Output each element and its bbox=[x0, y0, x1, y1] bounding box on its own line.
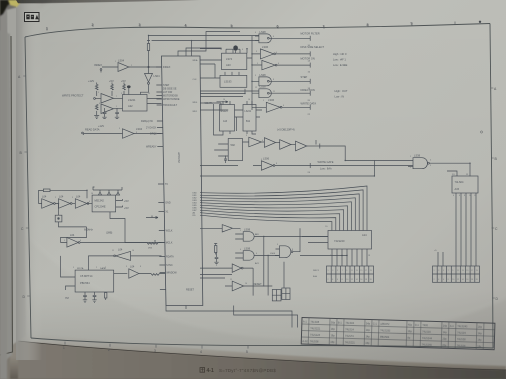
svg-text:LS06: LS06 bbox=[263, 157, 270, 161]
svg-text:A23: A23 bbox=[226, 63, 231, 67]
svg-text:A13: A13 bbox=[223, 120, 228, 123]
svg-text:6: 6 bbox=[283, 105, 284, 107]
svg-text:15: 15 bbox=[360, 270, 362, 272]
svg-text:LS08: LS08 bbox=[244, 228, 251, 232]
wire top long bbox=[149, 32, 241, 41]
crystal X1 bbox=[55, 204, 93, 232]
wire U4 to window buffer bbox=[114, 273, 128, 275]
capacitor C4 bbox=[93, 292, 97, 300]
svg-text:LS38: LS38 bbox=[414, 154, 421, 158]
svg-text:D-1: D-1 bbox=[415, 324, 420, 327]
svg-text:11: 11 bbox=[112, 250, 114, 252]
buffer A1 LS04 bbox=[118, 59, 162, 72]
gate B1 LS38 nand bbox=[255, 30, 310, 43]
ground G4 bbox=[83, 300, 87, 303]
wires U1 top to gates bbox=[149, 32, 259, 57]
svg-text:6: 6 bbox=[443, 279, 444, 281]
right border dot mark bbox=[480, 131, 482, 133]
jumper JP1 bbox=[272, 290, 281, 301]
svg-text:14p: 14p bbox=[366, 322, 371, 325]
power labels +12V +5V bbox=[88, 79, 126, 83]
svg-text:8: 8 bbox=[276, 163, 277, 165]
svg-text:DMA(x)=W: DMA(x)=W bbox=[141, 120, 153, 123]
inverter A6 LS04 bbox=[39, 195, 59, 209]
svg-text:+12V: +12V bbox=[98, 124, 104, 128]
svg-text:19: 19 bbox=[476, 270, 478, 272]
svg-text:9: 9 bbox=[452, 270, 453, 272]
svg-text:S=7Dyt°-7"4X7$N@PDB$: S=7Dyt°-7"4X7$N@PDB$ bbox=[219, 368, 276, 373]
svg-text:1: 1 bbox=[46, 27, 48, 31]
svg-text:LS38: LS38 bbox=[260, 73, 267, 77]
svg-text:4: 4 bbox=[453, 195, 454, 197]
svg-text:16: 16 bbox=[360, 279, 362, 281]
gate E3 LS08 A21 bbox=[235, 247, 279, 265]
capacitor C5 electrolytic bbox=[233, 45, 238, 53]
ground G2 bbox=[102, 117, 106, 118]
svg-text:16p: 16p bbox=[331, 321, 336, 324]
svg-text:17: 17 bbox=[365, 270, 367, 272]
svg-text:1: 1 bbox=[63, 346, 65, 350]
svg-text:4: 4 bbox=[255, 32, 256, 34]
gate E2 LS08 A11 bbox=[235, 228, 328, 242]
terminal T2 bbox=[308, 51, 311, 62]
counter U6 LS193 bbox=[220, 72, 247, 87]
frame tick numbers top bbox=[46, 22, 413, 31]
svg-text:GND: GND bbox=[165, 202, 171, 205]
svg-text:10: 10 bbox=[132, 250, 134, 252]
svg-text:2: 2 bbox=[410, 167, 411, 169]
buffer E1 bbox=[200, 225, 241, 232]
svg-text:74LS08: 74LS08 bbox=[310, 321, 319, 324]
svg-text:16: 16 bbox=[117, 193, 119, 195]
resistor R3 bbox=[111, 83, 114, 97]
svg-text:WINDOW: WINDOW bbox=[166, 272, 177, 275]
svg-text:5: 5 bbox=[246, 350, 248, 354]
resistor R7 below U4 bbox=[105, 292, 107, 300]
svg-text:INDEX: INDEX bbox=[94, 63, 102, 67]
svg-text:C5 MPT14: C5 MPT14 bbox=[80, 274, 93, 278]
capacitor C1 bbox=[103, 108, 107, 117]
svg-text:8: 8 bbox=[448, 279, 449, 281]
svg-text:3: 3 bbox=[332, 270, 333, 272]
svg-text:16p: 16p bbox=[408, 330, 413, 333]
svg-text:2: 2 bbox=[434, 279, 435, 281]
inverter A8 LS04 bbox=[75, 195, 92, 209]
buffer A11 bbox=[129, 265, 166, 279]
svg-text:9: 9 bbox=[119, 128, 120, 130]
svg-text:LS04: LS04 bbox=[136, 127, 143, 131]
svg-text:LS04: LS04 bbox=[154, 74, 161, 78]
svg-text:5: 5 bbox=[257, 63, 258, 65]
svg-text:L04: L04 bbox=[76, 195, 81, 199]
svg-text:74LS14: 74LS14 bbox=[345, 328, 354, 331]
U1 left pin stubs bbox=[156, 67, 166, 290]
svg-text:3: 3 bbox=[246, 135, 247, 137]
buffer C4a bbox=[296, 141, 320, 151]
wire MCLK to U1 bbox=[110, 212, 162, 243]
capacitor C6 bbox=[215, 252, 219, 262]
VFO U4 bbox=[75, 267, 114, 292]
wire loop left of U4 bbox=[61, 256, 76, 290]
svg-text:13: 13 bbox=[462, 270, 464, 272]
svg-text:14p: 14p bbox=[366, 329, 371, 332]
svg-text:74LS240: 74LS240 bbox=[334, 239, 345, 243]
svg-text:6: 6 bbox=[273, 36, 274, 38]
buffer C3a bbox=[280, 140, 296, 150]
svg-text:STEP: STEP bbox=[301, 75, 308, 79]
svg-text:74LS123: 74LS123 bbox=[310, 334, 321, 337]
pin number marks bbox=[38, 32, 476, 285]
inverter A7 LS04 bbox=[59, 195, 76, 209]
svg-text:7406: 7406 bbox=[422, 324, 428, 327]
svg-text:+5V: +5V bbox=[121, 79, 126, 83]
svg-text:LS04: LS04 bbox=[118, 59, 125, 63]
svg-text:74LS08: 74LS08 bbox=[310, 340, 319, 343]
svg-text:5: 5 bbox=[231, 24, 233, 28]
frame tick marks right bbox=[491, 88, 495, 298]
svg-text:6: 6 bbox=[278, 63, 279, 65]
svg-text:74LS240: 74LS240 bbox=[422, 344, 433, 347]
svg-text:9: 9 bbox=[255, 75, 256, 77]
svg-text:1: 1 bbox=[240, 230, 241, 232]
svg-text:11: 11 bbox=[230, 279, 232, 281]
svg-text:74LS04: 74LS04 bbox=[457, 345, 466, 348]
svg-text:12: 12 bbox=[351, 279, 353, 281]
svg-text:3: 3 bbox=[105, 267, 106, 269]
svg-text:DNC1: DNC1 bbox=[313, 270, 320, 272]
wires U1 right to row gates bbox=[200, 60, 228, 112]
svg-text:5: 5 bbox=[263, 100, 264, 102]
svg-text:LS00: LS00 bbox=[270, 253, 276, 255]
svg-text:uPD372: uPD372 bbox=[380, 323, 390, 326]
svg-text:40p: 40p bbox=[408, 324, 413, 327]
label STEP bbox=[301, 75, 308, 79]
svg-text:1: 1 bbox=[434, 270, 435, 272]
svg-text:WPROT/2SIDE: WPROT/2SIDE bbox=[163, 98, 180, 101]
svg-text:A15: A15 bbox=[455, 187, 460, 191]
svg-text:17: 17 bbox=[471, 270, 473, 272]
svg-text:2: 2 bbox=[328, 279, 329, 281]
gate B4 LS38 bbox=[259, 73, 310, 86]
svg-text:CLK: CLK bbox=[193, 79, 198, 81]
svg-text:Low : 8Ah: Low : 8Ah bbox=[320, 167, 332, 171]
svg-text:WRITE GATE: WRITE GATE bbox=[318, 160, 334, 164]
gate D1 LS38 A05 bbox=[408, 154, 470, 177]
svg-text:uPD372: uPD372 bbox=[177, 152, 181, 163]
buffer B2 LS06 bbox=[260, 45, 310, 59]
svg-text:600kHz: 600kHz bbox=[84, 228, 93, 232]
label DB120 bbox=[277, 128, 295, 132]
label MOTOR ON bbox=[301, 56, 348, 67]
svg-text:(1MB): (1MB) bbox=[106, 233, 112, 235]
terminal T3 bbox=[308, 63, 311, 74]
svg-text:14p: 14p bbox=[477, 339, 482, 342]
svg-text:3: 3 bbox=[438, 270, 439, 272]
svg-text:3: 3 bbox=[121, 93, 122, 95]
svg-text:18: 18 bbox=[365, 279, 367, 281]
wires bottom bus bbox=[166, 306, 298, 328]
svg-text:L04: L04 bbox=[59, 195, 64, 199]
inverter A9 LS04 bbox=[67, 233, 164, 250]
U1 right pin labels DB0-DB7 bbox=[193, 59, 198, 217]
svg-text:WDATA: WDATA bbox=[205, 102, 213, 105]
svg-text:20p: 20p bbox=[442, 338, 447, 341]
frame tick marks left bbox=[23, 76, 30, 296]
svg-text:7: 7 bbox=[342, 270, 343, 272]
svg-text:LS221: LS221 bbox=[221, 111, 228, 113]
label 600k bbox=[106, 233, 112, 235]
svg-text:4: 4 bbox=[438, 279, 439, 281]
ground G6 bbox=[214, 262, 218, 265]
svg-text:16p: 16p bbox=[331, 328, 336, 331]
svg-text:Low : E-9EE: Low : E-9EE bbox=[333, 63, 348, 67]
buffer C5a write gate bbox=[200, 157, 413, 171]
svg-text:74LS240: 74LS240 bbox=[457, 325, 468, 328]
left outer dark strip bbox=[0, 0, 7, 379]
wires LS240 to J1 bbox=[300, 249, 367, 266]
svg-text:74LS244: 74LS244 bbox=[422, 337, 433, 340]
label DISK SIDE SELECT bbox=[301, 45, 347, 62]
svg-text:14p: 14p bbox=[443, 325, 448, 328]
svg-text:LS06: LS06 bbox=[268, 98, 275, 102]
svg-text:11: 11 bbox=[457, 270, 459, 272]
svg-text:74LS04: 74LS04 bbox=[457, 332, 466, 335]
svg-text:11: 11 bbox=[351, 270, 353, 272]
svg-text:A-12: A-12 bbox=[302, 340, 308, 343]
svg-text:6: 6 bbox=[80, 240, 81, 242]
terminal T6 bbox=[308, 105, 311, 116]
svg-text:8: 8 bbox=[273, 79, 274, 81]
buffer E6 reset bbox=[225, 281, 272, 291]
top border dot mark bbox=[479, 21, 481, 23]
svg-text:20p: 20p bbox=[478, 326, 483, 329]
wires right rows bbox=[200, 89, 259, 97]
svg-text:9: 9 bbox=[411, 22, 413, 26]
schematic frame border bbox=[25, 24, 493, 349]
svg-text:16: 16 bbox=[248, 99, 250, 101]
svg-text:+5V: +5V bbox=[124, 206, 129, 210]
svg-text:4: 4 bbox=[242, 49, 243, 51]
svg-text:8: 8 bbox=[136, 132, 137, 134]
driver U9 bbox=[214, 139, 242, 161]
svg-text:8: 8 bbox=[140, 266, 141, 268]
jumper JP2 bbox=[282, 288, 290, 300]
page bottom shadow bbox=[10, 330, 506, 379]
+5V stubs right of U3 bbox=[116, 199, 129, 210]
svg-text:WDA: WDA bbox=[193, 59, 198, 62]
terminal T4 bbox=[308, 79, 311, 90]
svg-text:1: 1 bbox=[410, 156, 411, 158]
resistor R6 feedback bbox=[39, 189, 88, 204]
svg-text:LS38: LS38 bbox=[260, 30, 267, 34]
svg-text:16p: 16p bbox=[330, 334, 335, 337]
svg-text:592: 592 bbox=[231, 143, 236, 147]
svg-text:74LS193: 74LS193 bbox=[380, 329, 391, 332]
svg-text:20: 20 bbox=[370, 279, 372, 281]
svg-text:CP1204E: CP1204E bbox=[95, 205, 106, 209]
svg-text:LS221: LS221 bbox=[128, 98, 136, 102]
svg-text:TRK0/FAULT: TRK0/FAULT bbox=[163, 104, 178, 107]
svg-text:+12V: +12V bbox=[88, 79, 94, 83]
svg-text:3: 3 bbox=[256, 51, 257, 53]
terminal T7 bbox=[316, 140, 320, 149]
svg-text:L04: L04 bbox=[70, 233, 75, 237]
svg-text:WDTA: WDTA bbox=[77, 267, 84, 270]
label WRITE DATA bbox=[301, 102, 317, 106]
svg-text:4: 4 bbox=[332, 279, 333, 281]
svg-text:12: 12 bbox=[457, 279, 459, 281]
svg-text:2: 2 bbox=[92, 23, 94, 27]
wires A15 to connector J2 bbox=[434, 193, 476, 266]
svg-text:9: 9 bbox=[261, 159, 262, 161]
READ DATA input bbox=[82, 124, 123, 135]
svg-text:3: 3 bbox=[154, 349, 156, 353]
svg-text:+5V: +5V bbox=[109, 79, 114, 83]
svg-text:MOTOR ON: MOTOR ON bbox=[301, 56, 315, 60]
frame tick marks top bbox=[47, 22, 455, 31]
svg-text:1: 1 bbox=[116, 106, 117, 108]
svg-text:A22: A22 bbox=[128, 104, 133, 108]
resistor R8 reset pullup bbox=[214, 244, 217, 255]
caption 図4-1 bbox=[200, 368, 276, 374]
resistor R2 bbox=[95, 83, 98, 97]
svg-text:74LS00: 74LS00 bbox=[422, 331, 431, 334]
svg-text:1: 1 bbox=[38, 197, 39, 199]
svg-text:WCLK: WCLK bbox=[166, 230, 173, 233]
svg-text:74LS221: 74LS221 bbox=[310, 327, 321, 330]
svg-text:13: 13 bbox=[356, 270, 358, 272]
svg-text:12: 12 bbox=[255, 87, 257, 89]
resistor R4 bbox=[123, 83, 126, 96]
neighbour page frame line bbox=[0, 36, 13, 355]
svg-text:2: 2 bbox=[108, 348, 110, 352]
flip-flop U5 LS74 bbox=[222, 49, 247, 69]
octal buffer U11 74LS240 A14 bbox=[302, 231, 372, 250]
svg-text:WRITE DATA: WRITE DATA bbox=[301, 102, 317, 106]
diodes D1-D3 bbox=[93, 187, 122, 195]
svg-text:RDATA: RDATA bbox=[166, 256, 174, 259]
wire 600k to inverter A9 bbox=[61, 227, 87, 243]
U1 left pin labels bbox=[141, 66, 195, 292]
svg-text:A14: A14 bbox=[362, 233, 367, 237]
svg-text:READ DATA: READ DATA bbox=[85, 128, 100, 132]
capacitor C2 bbox=[115, 108, 119, 117]
comparator A3 bbox=[101, 94, 123, 104]
parts table bbox=[301, 318, 495, 350]
svg-text:RESET: RESET bbox=[186, 289, 195, 292]
svg-text:L04: L04 bbox=[42, 195, 47, 199]
svg-text:8: 8 bbox=[464, 195, 465, 197]
svg-text:SYNC: SYNC bbox=[166, 264, 173, 267]
svg-text:2: 2 bbox=[131, 65, 132, 67]
inverter A2 LS04 down bbox=[141, 67, 161, 95]
xtal arrow pin bbox=[146, 216, 158, 219]
ground G3 bbox=[115, 117, 119, 118]
svg-text:L04: L04 bbox=[118, 248, 123, 252]
svg-text:3: 3 bbox=[256, 234, 257, 236]
gate B5 LS38 bbox=[259, 85, 310, 98]
connector J1 bbox=[313, 266, 374, 282]
wires buffers outputs right bbox=[320, 146, 375, 161]
svg-text:14p: 14p bbox=[443, 331, 448, 334]
svg-text:5: 5 bbox=[443, 270, 444, 272]
svg-text:LS193: LS193 bbox=[224, 80, 232, 84]
comparator A4 bbox=[101, 104, 123, 114]
svg-text:16p: 16p bbox=[365, 342, 370, 345]
svg-text:14: 14 bbox=[220, 49, 222, 51]
svg-text:5: 5 bbox=[337, 270, 338, 272]
inverter A10 pointing left bbox=[89, 248, 162, 271]
svg-text:4: 4 bbox=[240, 249, 241, 251]
svg-text:3: 3 bbox=[430, 165, 431, 167]
wire long y176 bbox=[200, 161, 413, 177]
svg-text:8: 8 bbox=[342, 279, 343, 281]
svg-text:Low : t4F 1: Low : t4F 1 bbox=[333, 58, 346, 62]
svg-text:2: 2 bbox=[96, 267, 97, 269]
svg-text:MOTOR FILTER: MOTOR FILTER bbox=[301, 32, 320, 36]
buffer C1a bbox=[243, 137, 265, 147]
svg-text:74LS04: 74LS04 bbox=[455, 180, 465, 184]
svg-text:14: 14 bbox=[91, 193, 93, 195]
frame tick marks bottom bbox=[65, 342, 248, 349]
svg-text:16: 16 bbox=[223, 99, 225, 101]
svg-text:18: 18 bbox=[471, 279, 473, 281]
svg-text:14p: 14p bbox=[365, 335, 370, 338]
svg-text:16: 16 bbox=[466, 279, 468, 281]
svg-text:6: 6 bbox=[277, 25, 279, 29]
ground G1 bbox=[94, 116, 99, 119]
svg-text:12: 12 bbox=[474, 195, 476, 197]
svg-text:20: 20 bbox=[476, 279, 478, 281]
svg-text:PBC564: PBC564 bbox=[380, 336, 390, 339]
controller U1 uPD372 bbox=[162, 56, 203, 306]
resistor R1 pullup +5V bbox=[147, 41, 150, 68]
svg-text:4: 4 bbox=[185, 24, 187, 28]
svg-text:2Y DACK: 2Y DACK bbox=[146, 127, 157, 130]
svg-text:6: 6 bbox=[256, 253, 257, 255]
page edge line bbox=[18, 341, 506, 370]
monostable U7 LS221 A13 bbox=[214, 101, 235, 135]
svg-text:14: 14 bbox=[356, 279, 358, 281]
inverter E5 bbox=[200, 264, 253, 272]
terminal T1 bbox=[308, 36, 311, 47]
label WRITE GATE bbox=[318, 160, 334, 171]
svg-text:6: 6 bbox=[337, 279, 338, 281]
svg-text:4-1: 4-1 bbox=[207, 368, 214, 374]
terminal T8 bbox=[308, 163, 311, 174]
data bus DB0-DB7 bbox=[200, 186, 367, 231]
svg-text:M51342: M51342 bbox=[95, 199, 105, 203]
svg-text:7: 7 bbox=[323, 25, 325, 29]
svg-text:LS08: LS08 bbox=[244, 247, 251, 251]
svg-text:DIRECTION: DIRECTION bbox=[301, 88, 315, 92]
svg-text:19: 19 bbox=[370, 270, 372, 272]
yellow cover sliver bbox=[8, 0, 22, 7]
svg-text:PBC564: PBC564 bbox=[80, 281, 90, 285]
monostable U2 LS221 bbox=[123, 95, 162, 112]
buffer C2a bbox=[264, 138, 279, 148]
svg-text:Low : IN: Low : IN bbox=[335, 95, 345, 99]
svg-text:10: 10 bbox=[245, 283, 247, 285]
svg-text:74LS04: 74LS04 bbox=[345, 322, 354, 325]
svg-text:15: 15 bbox=[466, 270, 468, 272]
wires between U7 U8 bbox=[235, 110, 263, 131]
capacitor C8 at U9 bbox=[224, 156, 227, 164]
inverter pack U10 74LS04 A15 bbox=[447, 171, 478, 193]
svg-text:9: 9 bbox=[346, 270, 347, 272]
svg-text:RESET: RESET bbox=[253, 282, 262, 286]
svg-text:DISK SIDE SELECT: DISK SIDE SELECT bbox=[301, 45, 325, 49]
